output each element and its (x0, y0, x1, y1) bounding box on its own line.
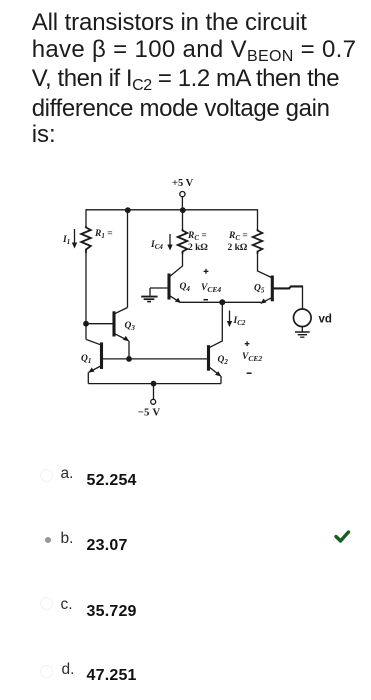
checkmark correct answer (336, 532, 349, 541)
svg-text:Q5: Q5 (254, 284, 265, 295)
transistor Q2 (102, 345, 221, 376)
node rail dot Q3 (125, 207, 131, 213)
current arrow IC4 (167, 234, 172, 251)
transistor Q5 (260, 276, 303, 304)
option d radio (40, 665, 53, 678)
current arrow IC2 (227, 311, 232, 328)
label VCE2 minus (247, 372, 252, 374)
wire Q3 emitter down (128, 341, 130, 359)
node rail dot +5V (180, 207, 186, 213)
option a value (87, 472, 137, 490)
wire Q3 collector riser (127, 210, 129, 308)
svg-text:Q3: Q3 (125, 321, 136, 332)
option c radio (40, 597, 53, 610)
ground below vd (295, 327, 310, 338)
option c letter (61, 596, 73, 614)
svg-text:IC2: IC2 (233, 316, 246, 327)
label VCE2 plus (245, 341, 250, 346)
option b radio (45, 537, 51, 543)
voltage source vd (294, 309, 312, 327)
ground at Q4 base (141, 288, 157, 302)
svg-text:Q1: Q1 (81, 354, 91, 365)
wire right RC branch top (257, 210, 259, 229)
option d letter (62, 661, 75, 679)
-5V supply terminal (151, 384, 156, 405)
svg-text:I1: I1 (62, 235, 70, 246)
current arrow I1 (72, 229, 77, 249)
resistor R1 (81, 226, 91, 253)
svg-text:2 kΩ: 2 kΩ (188, 243, 208, 253)
option c value (87, 603, 137, 621)
svg-text:Q2: Q2 (218, 355, 229, 366)
svg-text:+5 V: +5 V (172, 178, 194, 189)
transistor Q3 (86, 308, 129, 342)
wire bottom rail (88, 383, 221, 385)
wire left branch lower (85, 253, 87, 340)
svg-text:vd: vd (319, 314, 332, 326)
label VCE4 plus (204, 269, 209, 274)
svg-text:2 kΩ: 2 kΩ (228, 243, 248, 253)
wire emitters Q4-Q5 (181, 301, 262, 303)
svg-text:IC4: IC4 (150, 240, 163, 251)
node -5V junction (151, 381, 157, 387)
wire left RC to Q4 collector (170, 254, 183, 277)
resistor RC right (253, 229, 263, 254)
node Q3 base junction (83, 321, 89, 327)
resistor RC left (178, 229, 188, 254)
svg-text:RC =: RC = (187, 231, 207, 242)
svg-text:Q4: Q4 (180, 282, 191, 293)
wire right RC to Q5 collector (258, 254, 272, 278)
transistor Q4 (150, 274, 181, 304)
wire left RC branch top (182, 210, 184, 229)
wire Q1 emitter down (87, 372, 89, 383)
label VCE4 minus (204, 299, 209, 301)
option a radio (40, 469, 53, 482)
option d value (87, 667, 137, 685)
transistor Q1 (86, 340, 101, 373)
node Q3 emitter junction (126, 356, 132, 362)
option b letter (61, 530, 74, 548)
option a letter (61, 465, 74, 483)
svg-text:−5 V: −5 V (138, 407, 161, 419)
+5V supply terminal (180, 192, 185, 210)
wire top rail (86, 209, 258, 211)
wire left branch upper (85, 209, 87, 226)
wire down to Q2 collector (209, 302, 222, 347)
node emitter junction (219, 299, 225, 305)
svg-text:R1 =: R1 = (94, 229, 113, 240)
wire Q2 emitter to rail (220, 376, 222, 384)
svg-text:VCE2: VCE2 (242, 352, 262, 363)
svg-text:VCE4: VCE4 (201, 283, 221, 294)
wire vd lead (302, 286, 304, 309)
option b value (87, 537, 128, 555)
svg-text:RC =: RC = (228, 231, 248, 242)
